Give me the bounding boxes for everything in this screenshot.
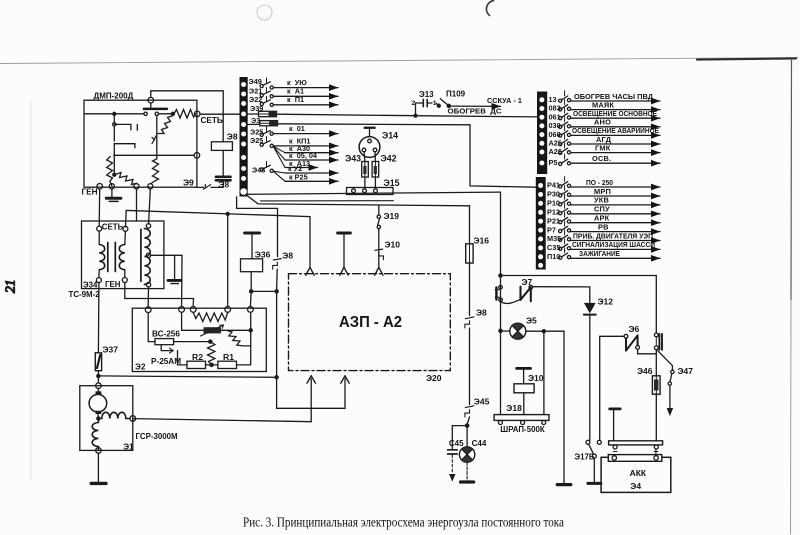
switch П109 blade xyxy=(437,104,440,107)
svg-text:Э34: Э34 xyxy=(83,281,98,290)
wires fuses to strip Э15 xyxy=(364,177,366,188)
wire Э6 bottom bridge xyxy=(638,349,656,354)
terminal strip Э (left distribution bar) xyxy=(240,77,248,197)
svg-text:ОСВЕЩЕНИЕ АВАРИЙНОЕ: ОСВЕЩЕНИЕ АВАРИЙНОЕ xyxy=(572,126,659,135)
transformer unit Э34 ТС-9М-2 xyxy=(82,221,164,289)
svg-text:Э5: Э5 xyxy=(526,315,537,325)
wire к Р25 xyxy=(285,180,338,182)
strip row 030: contact and switch xyxy=(559,117,571,129)
terminal (top) of Э9 xyxy=(148,97,154,103)
wire ЗАЖИГАНИЕ xyxy=(571,257,660,259)
arrow 1 into АЗП top xyxy=(306,267,314,275)
svg-text:Э12: Э12 xyxy=(598,297,614,307)
wire Э14 top pin with bar xyxy=(369,129,371,136)
strip row П10: contact and switch xyxy=(559,248,571,260)
wire к У2 xyxy=(285,172,338,174)
junction feeder/Э7 branch xyxy=(499,274,502,277)
terminals on top edge of Э2 xyxy=(145,307,151,313)
strip row 13: contact and switch xyxy=(559,91,571,102)
svg-text:Э45: Э45 xyxy=(474,396,490,406)
svg-text:083: 083 xyxy=(549,104,561,113)
svg-text:А25: А25 xyxy=(549,139,562,148)
svg-text:ДМП-200Д: ДМП-200Д xyxy=(94,91,134,100)
wire МАЯК xyxy=(571,109,660,111)
wire Э14 right pin to fuse Э42 xyxy=(374,152,376,162)
svg-text:к У2: к У2 xyxy=(288,164,302,173)
svg-text:Рис. 3. Принципиальная электро: Рис. 3. Принципиальная электросхема энер… xyxy=(243,515,564,530)
wire Э5 right branch east to ground column xyxy=(544,331,564,483)
wire Э36 down to junction xyxy=(250,272,252,292)
wire left column to bottom junction xyxy=(276,291,278,377)
wire right inside Э9 xyxy=(159,113,174,115)
wire ПРИБ. ДВИГАТЕЛЯ УЭП xyxy=(571,240,660,242)
svg-text:РВ: РВ xyxy=(598,222,609,231)
wire capacitor Э8 to Э9 corner with contact xyxy=(197,180,223,187)
strip row М35: contact and switch xyxy=(559,230,571,241)
transformer small: left winding xyxy=(98,231,100,244)
svg-text:П10: П10 xyxy=(547,252,560,261)
terminal 3 of Э9 xyxy=(134,184,139,189)
switch Э19 xyxy=(378,206,380,215)
terminal bottom of Э1 xyxy=(96,448,102,454)
svg-text:СЕТЬ: СЕТЬ xyxy=(102,222,124,231)
svg-text:ВС-256: ВС-256 xyxy=(152,329,180,338)
fuse Э42 xyxy=(372,162,379,178)
wire Э39 row to П109 and strip2 xyxy=(277,114,416,116)
relay Э8 (box right of Э9) xyxy=(211,142,232,151)
terminal 4 of Э9 xyxy=(148,184,153,189)
fuse Э39 xyxy=(248,113,259,115)
svg-text:Р10: Р10 xyxy=(547,199,560,208)
fuse Э46 xyxy=(652,376,660,394)
capacitor С45 branch xyxy=(452,426,467,450)
wire mid tap to ground xyxy=(151,254,182,256)
svg-text:Р41: Р41 xyxy=(547,181,560,190)
wire W2 corner down through Э16 xyxy=(469,206,471,244)
wire Э13 down to Э39 bus xyxy=(415,103,417,116)
svg-text:Э9: Э9 xyxy=(183,178,194,188)
battery connector plate (upper) xyxy=(609,441,663,445)
battery terminal strip xyxy=(608,455,662,462)
svg-text:ГЕН: ГЕН xyxy=(105,280,121,289)
wire к УЮ xyxy=(273,87,338,89)
diode Э12 xyxy=(584,303,596,314)
wire Э9 terminal4 down to transformer tap xyxy=(149,189,151,224)
strip row Р21: contact and switch xyxy=(559,212,571,224)
svg-text:ГСР-3000М: ГСР-3000М xyxy=(136,432,179,441)
svg-text:Э15: Э15 xyxy=(384,178,400,188)
trimmer resistor (dark) xyxy=(204,327,222,333)
svg-text:ГЕН: ГЕН xyxy=(82,188,98,197)
wire left column of Э9 xyxy=(113,116,115,124)
strip1 switch contact row Э22 xyxy=(260,96,273,106)
relay Э36 xyxy=(241,259,263,272)
wire Э5 right down to Э18 xyxy=(543,331,545,414)
wire Э12 down to battery connector xyxy=(589,315,591,441)
transformer small: right winding xyxy=(124,231,127,244)
resistor (top right in Э9) xyxy=(174,110,196,119)
svg-text:Э14: Э14 xyxy=(382,131,398,141)
terminal strip 3 (lower right distribution bar) xyxy=(536,177,546,270)
svg-text:Э46: Э46 xyxy=(637,366,653,376)
relay Э10 (box) xyxy=(514,384,534,393)
wire Э7 branch east and down to Э6 xyxy=(501,276,657,334)
relay coil bracket 1 in Э9 xyxy=(113,123,116,126)
wire bottom tap to Э2 c1 xyxy=(147,287,149,307)
svg-text:СПУ: СПУ xyxy=(594,205,610,214)
svg-text:ПО - 250: ПО - 250 xyxy=(586,178,613,187)
svg-text:Э10: Э10 xyxy=(528,373,544,383)
capacitor Э8 xyxy=(216,176,231,179)
wire Э46 down to battery plus xyxy=(655,394,657,441)
resistor (diagonal in Э9) xyxy=(158,116,173,134)
wiper arrow under ВС-256 xyxy=(161,345,173,351)
strip1 switch contact row Э21 xyxy=(260,88,273,98)
arrow 2 into АЗП top xyxy=(340,267,348,275)
wire ГМК xyxy=(571,152,660,154)
svg-text:Э8: Э8 xyxy=(476,308,487,318)
ground (right of ШРАП) xyxy=(557,483,571,486)
wire Э9 ГЕН down to Э34 xyxy=(98,189,101,226)
strip row С35: contact and switch xyxy=(559,239,571,251)
arrow 3 into АЗП top xyxy=(375,267,383,275)
wire W1 corner down (main feeder) xyxy=(500,192,502,415)
strip row А25: contact and switch xyxy=(559,134,571,145)
svg-text:030: 030 xyxy=(549,121,561,130)
terminal (right) of Э9 xyxy=(194,153,200,159)
ground (Э34 mid tap) xyxy=(168,279,181,282)
fuse Э16 xyxy=(466,244,473,263)
resistor zigzag mid bottom Э9 xyxy=(151,159,159,184)
wire relay Э8 down xyxy=(222,150,224,176)
terminal 2 of Э9 with ground xyxy=(109,184,114,189)
svg-text:А26: А26 xyxy=(549,147,562,156)
junction at С45/С44 xyxy=(465,424,468,427)
resistor zigzag 2 bottom Э9 xyxy=(113,173,116,176)
svg-text:ГМК: ГМК xyxy=(595,143,611,152)
wire ОСВЕЩЕНИЕ ОСНОВНОЕ xyxy=(571,117,660,119)
ground below Э9 xyxy=(111,189,113,198)
strip row Р7: contact and switch xyxy=(559,221,571,232)
svg-text:Р30: Р30 xyxy=(547,190,560,199)
svg-text:Э43: Э43 xyxy=(345,154,361,164)
transformer big: winding with taps xyxy=(144,229,150,285)
wire С44 to ground xyxy=(466,462,468,481)
arrow 1 into АЗП bottom xyxy=(307,376,315,384)
svg-text:Э8: Э8 xyxy=(282,250,293,260)
wire W1: strip1 to Э15 to right column xyxy=(247,192,501,194)
wire c2 down / mid row xyxy=(182,312,251,330)
wire к А13 xyxy=(285,167,318,169)
capacitor symbol Э13 xyxy=(417,102,433,104)
transformer big: core bar xyxy=(140,229,142,281)
svg-text:МРП: МРП xyxy=(594,187,611,196)
wire АЗП left column (x=277) xyxy=(237,197,278,257)
arrow 2 into АЗП bottom xyxy=(341,376,349,384)
ground below Э1 xyxy=(91,482,106,485)
strip row Р41: contact and switch xyxy=(559,177,571,188)
wire Э37 to generator with junction W6 xyxy=(97,371,99,383)
contact Э8 (АЗП left) xyxy=(273,259,281,260)
wire W6 east to АЗП bottom column xyxy=(98,376,276,377)
svg-text:ОБОГРЕВ ДС: ОБОГРЕВ ДС xyxy=(448,107,503,116)
svg-text:АКК: АКК xyxy=(630,468,647,478)
wire Э7 to diode Э12 xyxy=(533,287,590,303)
scan: punch hole crescent top xyxy=(486,1,493,16)
capacitor bar above Э10 box xyxy=(517,367,531,370)
capacitor bar above Э36 xyxy=(245,232,260,235)
wire Э34 left bottom down to fuse Э37 xyxy=(97,283,100,353)
winding (vertical) of Э1 xyxy=(92,419,98,450)
armature of Э1 with brushes xyxy=(96,391,102,394)
wire ССКУА - 1 xyxy=(450,105,500,107)
svg-text:Э42: Э42 xyxy=(381,154,397,164)
connector plate Э18 ШРАП-500К xyxy=(494,415,549,421)
wire АНО xyxy=(571,126,660,128)
wire СЕТЬ to strip1 xyxy=(200,113,239,115)
svg-text:Э1: Э1 xyxy=(123,442,134,451)
strip1 switch contact row Э25a xyxy=(260,126,273,136)
terminal circles in Э34 xyxy=(97,226,102,231)
fan-out wires from Э25b xyxy=(273,146,285,167)
svg-text:Э2: Э2 xyxy=(135,363,146,372)
wire Э9 terminal3 down xyxy=(136,189,138,221)
strip1 switch contact row Э49 xyxy=(260,78,273,89)
strip1 switch contact row Э25b xyxy=(260,137,273,148)
wire Э6 left to down column xyxy=(600,336,624,440)
strip row Р5: contact and switch xyxy=(559,154,571,165)
resistor (top, between c3 and c4) xyxy=(193,313,228,322)
svg-text:к П1: к П1 xyxy=(287,95,304,104)
svg-text:АЗП - А2: АЗП - А2 xyxy=(339,314,402,331)
capacitor bar above АЗП arrow2 xyxy=(338,232,351,235)
wire Э14 left pin to fuse Э43 xyxy=(363,152,366,162)
scan: top horizontal crease line xyxy=(0,58,798,64)
svg-text:Р7: Р7 xyxy=(547,225,556,234)
svg-text:Э47: Э47 xyxy=(678,366,694,376)
wire к 05, 04 xyxy=(285,159,338,161)
wire АРК xyxy=(571,222,660,224)
wire ОБОГРЕВ ЧАСЫ ПВД xyxy=(571,100,660,102)
resistor (diagonal right in Э2) xyxy=(228,331,251,346)
contact blade mid Э9 xyxy=(156,116,158,159)
wire W2: strip1 to mid bus to Э16 column xyxy=(247,195,470,206)
wire junction to АЗП bottom arrow 2 xyxy=(277,377,345,408)
strip row 083: contact and switch xyxy=(559,100,571,112)
strip row 061: contact and switch xyxy=(559,108,571,120)
wire Э1 to ground xyxy=(97,453,99,482)
contact Э17Б circles xyxy=(586,440,590,444)
svg-text:СЕТЬ: СЕТЬ xyxy=(201,116,223,125)
svg-text:ЗАЖИГАНИЕ: ЗАЖИГАНИЕ xyxy=(579,249,620,258)
wire W5 corner down to strip3 feed xyxy=(470,125,537,187)
wire УКВ xyxy=(571,204,660,206)
fuse Э3 xyxy=(248,123,260,125)
wire ОСВЕЩЕНИЕ АВАРИЙНОЕ xyxy=(571,134,660,136)
strip row Р30: contact and switch xyxy=(559,186,571,197)
wire ВС-256 to mid node xyxy=(174,341,211,343)
svg-text:Э25: Э25 xyxy=(250,127,263,136)
wire ПО - 250 xyxy=(571,186,660,188)
strip1 switch contact row Э48 xyxy=(260,162,273,173)
wire СИГНАЛИЗАЦИЯ ШАССИ xyxy=(571,248,660,250)
svg-text:ТС-9М-2: ТС-9М-2 xyxy=(69,290,101,299)
svg-text:Э37: Э37 xyxy=(103,344,119,354)
wire МРП xyxy=(571,195,660,197)
svg-text:Э4: Э4 xyxy=(630,481,641,491)
terminal top of Э1 xyxy=(96,383,102,389)
transformer small: core bars xyxy=(107,243,109,272)
regulator box Э2 Р-25АМ xyxy=(132,308,266,371)
wire Э6 to fuse Э46 xyxy=(655,350,657,376)
wire W7: Э34 top to АЗП arrow1 xyxy=(126,210,311,267)
wire к КП1 xyxy=(273,145,338,147)
contact Э45 xyxy=(465,406,473,408)
svg-text:С44: С44 xyxy=(472,439,487,448)
svg-text:R1: R1 xyxy=(223,352,234,362)
ground below С44 xyxy=(461,480,474,483)
wire АЗП bottom arrow 1 to generator xyxy=(133,379,311,422)
svg-text:к Р25: к Р25 xyxy=(289,173,308,182)
wire Э3 row east xyxy=(278,124,471,125)
ground below Э17Б xyxy=(588,482,601,485)
svg-text:060: 060 xyxy=(549,130,561,139)
svg-text:Р5: Р5 xyxy=(549,158,558,167)
wire c1 down to ВС-256 xyxy=(148,313,155,342)
frame bar symbol above battery minus xyxy=(610,407,621,410)
wires bottom row of Э2 xyxy=(178,312,251,365)
svg-text:Р12: Р12 xyxy=(547,208,560,217)
wire СПУ xyxy=(571,213,660,215)
wire к А1 xyxy=(273,95,338,97)
strip row Р12: contact and switch xyxy=(559,203,571,214)
svg-text:Э20: Э20 xyxy=(426,373,442,383)
svg-text:С45: С45 xyxy=(449,439,464,448)
svg-text:С35: С35 xyxy=(547,243,560,252)
fuse Э43 xyxy=(362,162,369,178)
scan: faint circle mark xyxy=(257,5,272,20)
wire Э17Б to ground xyxy=(593,458,595,482)
wire junction to Э2 c5 xyxy=(249,291,252,306)
contact Э10 (mid column) xyxy=(378,229,380,268)
svg-text:Э8: Э8 xyxy=(227,132,238,142)
terminal ГЕН of Э9 xyxy=(97,184,103,190)
strip row А26: contact and switch xyxy=(559,143,571,154)
svg-text:21: 21 xyxy=(3,280,18,294)
scan: faint left fold line xyxy=(30,100,32,480)
fuse Э37 xyxy=(95,353,101,371)
resistor (vertical zigzag in Э2) xyxy=(208,342,216,365)
strip row 060: contact and switch xyxy=(559,126,571,137)
svg-text:АРК: АРК xyxy=(594,214,610,223)
svg-text:ПРИБ. ДВИГАТЕЛЯ УЭП: ПРИБ. ДВИГАТЕЛЯ УЭП xyxy=(573,231,653,240)
scan: right page edge vertical xyxy=(790,59,793,300)
wire РВ xyxy=(571,231,660,233)
strip row Р10: contact and switch xyxy=(559,194,571,206)
svg-text:Р-25АМ: Р-25АМ xyxy=(151,357,181,366)
wire к П1 xyxy=(273,104,338,106)
terminal СЕТЬ of Э9 xyxy=(194,111,200,117)
resistor zigzag left bottom Э9 xyxy=(107,157,113,187)
regulator box Э9 ДМП-200Д xyxy=(84,100,197,187)
junction below armature xyxy=(97,414,100,419)
wire Э34 ГЕН terminal down and east (W8) xyxy=(125,283,194,307)
terminal strip 2 (upper right distribution bar) xyxy=(537,92,547,175)
contact Э8 (right column) xyxy=(465,317,473,319)
svg-text:Э6: Э6 xyxy=(629,324,640,334)
connector Э14 (round plug) xyxy=(359,137,380,158)
relay coil bracket 2 in Э9 xyxy=(114,144,135,154)
svg-text:ОСВ.: ОСВ. xyxy=(592,154,611,163)
svg-text:13: 13 xyxy=(549,95,557,104)
svg-text:к 01: к 01 xyxy=(289,124,305,133)
svg-text:Э49: Э49 xyxy=(249,77,262,86)
svg-text:ШРАП-500К: ШРАП-500К xyxy=(500,425,545,434)
wire к 01 xyxy=(273,133,338,135)
terminal strip Э15 xyxy=(347,188,394,195)
wire left inside Э9 xyxy=(84,113,144,115)
svg-text:R2: R2 xyxy=(192,352,203,362)
svg-text:Э18: Э18 xyxy=(506,403,522,413)
svg-text:Э10: Э10 xyxy=(385,239,401,249)
svg-text:УКВ: УКВ xyxy=(594,196,609,205)
svg-text:Э36: Э36 xyxy=(255,250,271,260)
wire tap column to Э2 c2 xyxy=(181,255,183,306)
svg-text:Р21: Р21 xyxy=(547,216,560,225)
strip1 row labels xyxy=(249,77,266,174)
unit АЗП-А2 (dash-dot box Э20) xyxy=(289,274,451,371)
svg-text:ОСВЕЩЕНИЕ ОСНОВНОЕ: ОСВЕЩЕНИЕ ОСНОВНОЕ xyxy=(573,109,657,118)
svg-text:Э13: Э13 xyxy=(419,90,434,99)
winding (horizontal) of Э1 xyxy=(98,412,129,418)
svg-text:Э16: Э16 xyxy=(474,235,490,245)
wire junction east to АЗП left column xyxy=(251,290,276,292)
battery АКК box Э4 xyxy=(601,457,671,492)
wire Э16 down xyxy=(469,263,471,316)
wire from Э9 top to relay Э8 xyxy=(151,91,223,142)
wire to right terminal of Э9 xyxy=(114,154,195,156)
svg-text:061: 061 xyxy=(549,112,561,121)
wire к А30 xyxy=(285,152,338,154)
wire АГД xyxy=(571,143,660,145)
push button contact inside Э9 xyxy=(150,103,152,108)
wire ОСВ. xyxy=(571,162,660,164)
svg-text:ССКУА - 1: ССКУА - 1 xyxy=(487,96,522,105)
fan-out wires from Э48 xyxy=(273,171,285,181)
generator Э1 ГСР-3000М box xyxy=(80,386,133,451)
svg-text:П109: П109 xyxy=(446,90,466,99)
wire c4 stem up to W7 xyxy=(227,214,229,307)
svg-text:СИГНАЛИЗАЦИЯ ШАССИ: СИГНАЛИЗАЦИЯ ШАССИ xyxy=(572,240,655,249)
svg-text:Э19: Э19 xyxy=(384,211,400,221)
svg-text:М35: М35 xyxy=(547,234,561,243)
terminal right of Э1 xyxy=(130,416,136,422)
